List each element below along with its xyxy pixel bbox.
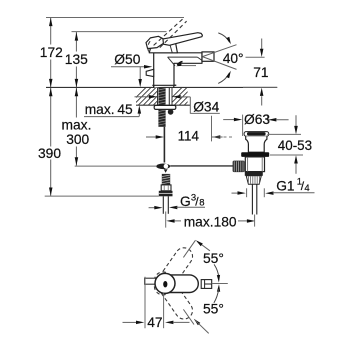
angle 40 deg label and arc arrows: [218, 33, 243, 84]
svg-text:300: 300: [66, 132, 89, 147]
svg-text:8: 8: [199, 198, 204, 209]
aerator swivel lines (40 deg fan): [202, 45, 236, 70]
svg-text:71: 71: [253, 65, 268, 80]
connection tee (ball joint): [156, 164, 170, 173]
svg-text:max.180: max.180: [184, 215, 237, 230]
dimension 390 (vertical): [38, 88, 61, 196]
handle bar (plan): [162, 275, 198, 293]
water flow arrow: [176, 62, 196, 67]
dimension 47 (plan): [123, 277, 190, 330]
hose-end reference line (390 bottom): [45, 195, 159, 197]
lever tip piece (plan): [201, 280, 212, 289]
pop-up pull knob (faucet rear): [146, 69, 154, 76]
svg-text:G: G: [180, 194, 191, 209]
countertop section (hatched): [46, 87, 277, 105]
horizontal pop-up rod: [170, 165, 233, 167]
waste threaded tailpiece: [246, 176, 261, 184]
dimension Ø63: [223, 112, 288, 136]
svg-text:Ø50: Ø50: [114, 52, 140, 67]
svg-text:135: 135: [65, 52, 88, 67]
dimension 71 (vertical): [243, 39, 277, 106]
svg-text:390: 390: [38, 146, 61, 161]
hose reference line (max.300 bottom): [75, 165, 156, 167]
angle 55 deg upper: [183, 240, 223, 282]
svg-text:47: 47: [147, 315, 162, 330]
dimension 172 (vertical): [40, 18, 63, 88]
label Ø50 with leader: [111, 52, 152, 80]
spout aerator (ball joint): [202, 52, 214, 61]
dimension 40-53 (vertical): [267, 115, 312, 174]
handle swing positions +-55 deg (dashed): [151, 244, 196, 322]
handle axis line (plan): [212, 283, 228, 285]
svg-text:172: 172: [40, 45, 63, 60]
svg-text:114: 114: [178, 129, 200, 144]
faucet body: [152, 53, 202, 88]
svg-text:Ø34: Ø34: [193, 100, 219, 115]
svg-text:G1: G1: [276, 179, 294, 194]
waste valve body: [245, 157, 264, 172]
svg-text:max. 45: max. 45: [85, 102, 133, 117]
lever handle (closed position): [158, 33, 202, 46]
svg-text:Ø63: Ø63: [244, 112, 270, 127]
threaded mounting stud: [158, 88, 169, 127]
flexible hose connector: [159, 174, 173, 196]
faucet body circle (plan): [155, 273, 175, 293]
mounting washer: [154, 105, 176, 114]
dimension 135 (vertical): [65, 32, 88, 87]
waste upper bowl and neck: [246, 136, 267, 152]
waste locknut: [241, 152, 269, 157]
label G3/8 with arrows: [149, 192, 205, 209]
svg-text:40-53: 40-53: [278, 138, 312, 153]
dimension max.300 (vertical): [62, 88, 92, 166]
dimension G1 1/4: [232, 177, 315, 198]
waste tail pipe G1 1/4: [252, 184, 256, 226]
pull rod lower: [163, 127, 165, 163]
lever-top reference line (135 level): [72, 31, 167, 33]
svg-text:55°: 55°: [203, 302, 224, 317]
svg-text:max.: max.: [62, 118, 92, 133]
dimension max. 45 (counter thickness): [84, 79, 142, 117]
spout level reference line: [246, 56, 265, 58]
lever grip knob: [146, 36, 163, 48]
waste knurled knob: [233, 161, 245, 173]
angle 55 deg lower: [183, 284, 223, 333]
cartridge dome: [149, 39, 177, 53]
waste thread collar: [245, 172, 263, 176]
hose tail pipe G3/8: [163, 196, 168, 214]
dimension 114 (horizontal): [146, 116, 232, 144]
svg-text:40°: 40°: [223, 51, 244, 66]
svg-text:4: 4: [304, 183, 309, 194]
dimension max.180 (horizontal): [166, 212, 256, 230]
svg-text:55°: 55°: [203, 251, 224, 266]
pull knob tab (plan): [145, 278, 156, 284]
dimension Ø34 (shank) with label: [135, 95, 220, 115]
waste flange top (Ø63): [244, 132, 269, 137]
lever raised 40 deg (dashed): [148, 18, 187, 52]
top reference line (handle max height): [46, 17, 184, 19]
